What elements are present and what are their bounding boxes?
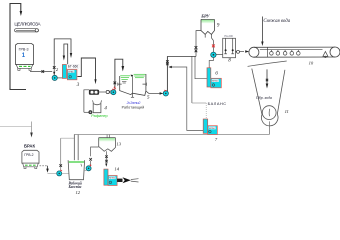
pump right of tank 12 (86, 164, 92, 170)
valve on riser (114, 82, 117, 85)
conveyor (15, 29, 39, 32)
wire tank4 pump suction (84, 111, 89, 113)
tank 4 pump (89, 111, 92, 114)
svg-text:ГРВ-2: ГРВ-2 (24, 153, 33, 157)
pump 2 (52, 66, 59, 80)
screen outlet circle (236, 51, 245, 53)
wire pump to unit 6 (209, 58, 213, 68)
pump under vessel 9 (211, 52, 216, 57)
svg-text:Рафинер: Рафинер (91, 113, 107, 118)
svg-text:Свежая вода: Свежая вода (263, 19, 290, 24)
wire down to units 6 7 (191, 56, 193, 103)
arrow to breast roll (245, 50, 249, 53)
vessel 9 right outlet (211, 34, 213, 40)
save-all tray (248, 61, 287, 66)
tower 3 БТ-660 (62, 64, 79, 88)
double valve (195, 46, 198, 52)
drops into vessel 13 (106, 135, 108, 138)
svg-text:13: 13 (116, 142, 121, 147)
valve V1 (42, 70, 45, 73)
svg-text:ГРВ-3: ГРВ-3 (19, 48, 29, 52)
coupling circles (106, 90, 109, 93)
svg-text:11: 11 (285, 109, 289, 114)
wire to unit 7 top (192, 102, 206, 104)
recirculation hairpin inner over tower 3 (64, 44, 68, 65)
unit 6 (207, 68, 221, 88)
svg-text:БРАК: БРАК (24, 144, 35, 149)
wire refiner inlet (84, 90, 89, 113)
paper machine 10 (249, 47, 340, 57)
wire pump2 to tower 3 (57, 77, 62, 79)
pump left of tank 12 (57, 170, 63, 176)
pit outlet (268, 121, 270, 134)
svg-text:Работающий: Работающий (122, 105, 145, 109)
svg-text:МЛ50: МЛ50 (109, 178, 115, 180)
return wire to unit 7 (171, 67, 204, 130)
vessel 9 left outlet (196, 31, 201, 57)
riser from chest pump (166, 56, 168, 91)
double valve on riser (166, 60, 169, 65)
svg-text:Бассейн: Бассейн (68, 184, 82, 189)
red valve (212, 45, 215, 48)
return wire arrow (168, 66, 171, 68)
wire pit 11 (252, 69, 289, 126)
whitewater line (74, 134, 269, 136)
machine chest pump (163, 90, 168, 96)
svg-text:БТ-660: БТ-660 (68, 65, 79, 69)
press output arrow (117, 177, 138, 183)
header wire (167, 55, 196, 57)
svg-text:РА-200: РА-200 (224, 34, 233, 38)
svg-text:БРУ: БРУ (200, 14, 210, 19)
unit 14 (104, 164, 120, 186)
svg-text:10: 10 (309, 60, 314, 65)
riser hairpin to refiner (77, 58, 95, 80)
svg-text:12: 12 (76, 190, 81, 195)
wire refiner to pump (99, 91, 111, 93)
twin drops into tank 12 (73, 135, 75, 161)
machine chest 5 (118, 74, 150, 101)
drop to pump left of tank 12 (60, 138, 62, 170)
unit 7 (203, 119, 218, 142)
svg-text:2х-Зонный: 2х-Зонный (126, 101, 141, 105)
pulper 1 ГРВ-3 (16, 44, 34, 71)
wire pump to screen 8 (216, 53, 223, 55)
tank 12 (68, 160, 85, 195)
vessel 13 (99, 138, 122, 152)
feed arrow down (20, 11, 23, 16)
svg-text:БАЛАНС: БАЛАНС (208, 101, 227, 106)
arrow into refiner (94, 79, 96, 84)
vessel 9 БРУ (201, 19, 220, 37)
broke outlet dashes (40, 165, 48, 167)
pit internal arrow (266, 69, 268, 84)
svg-text:МЛ50: МЛ50 (209, 128, 215, 130)
fresh water arrow (261, 17, 263, 43)
broke return line (0, 126, 32, 128)
svg-text:14: 14 (114, 166, 119, 171)
svg-text:МЛ50: МЛ50 (212, 81, 218, 83)
svg-text:ГРВ5: ГРВ5 (68, 71, 74, 73)
wire vessel13 to pump right of tank 12 (91, 147, 99, 156)
chest 5 outlet arrow (146, 91, 149, 93)
feed hairpin pipe top-left (10, 4, 21, 89)
wire pulper outlet (30, 71, 52, 73)
recirculation hairpin outer over tower 3 (54, 39, 71, 64)
suction box triangle (323, 52, 328, 57)
fan pump to headbox (111, 89, 116, 95)
riser from fan pump to chest (115, 59, 123, 89)
svg-text:Обр. вода: Обр. вода (256, 96, 272, 100)
branch to unit 6 (195, 56, 207, 78)
svg-text:ЦЕЛЛЮЛОЗА: ЦЕЛЛЮЛОЗА (14, 22, 41, 27)
broke pulper ГРВ-2 (22, 150, 39, 168)
disc refiner (89, 90, 98, 94)
wire to pump 2 (53, 64, 55, 75)
arrow into chest 5 (122, 66, 125, 72)
screen 8 (223, 34, 236, 64)
drain line under pulper (10, 88, 26, 90)
tank 4 (93, 100, 108, 112)
vessel 13 bottom outlet (106, 151, 108, 163)
